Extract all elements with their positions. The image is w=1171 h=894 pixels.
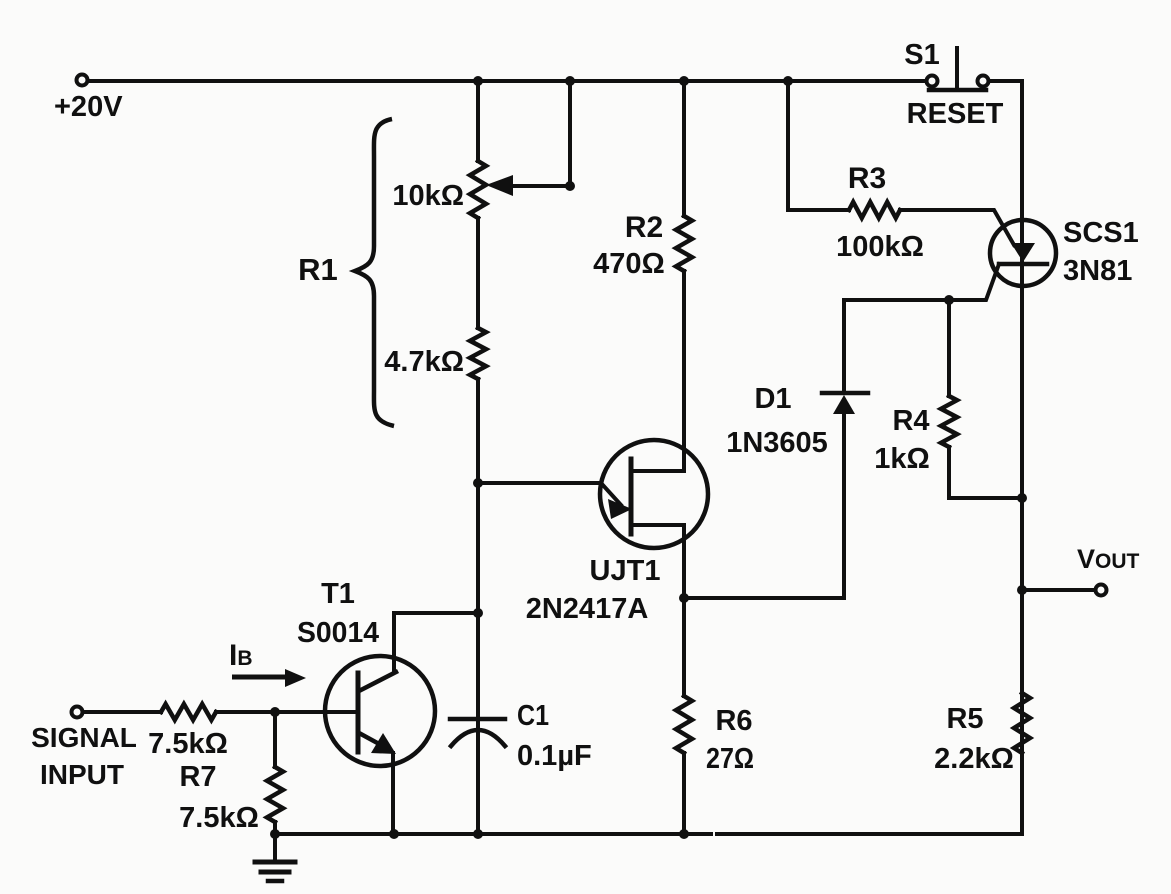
svg-text:S0014: S0014 [297, 617, 379, 649]
svg-text:2N2417A: 2N2417A [526, 593, 649, 625]
svg-text:UJT1: UJT1 [590, 555, 661, 587]
svg-text:100kΩ: 100kΩ [836, 231, 924, 263]
svg-text:R2: R2 [625, 211, 663, 244]
svg-text:7.5kΩ: 7.5kΩ [148, 728, 228, 760]
svg-text:R1: R1 [298, 252, 338, 287]
svg-text:10kΩ: 10kΩ [392, 180, 464, 212]
svg-text:3N81: 3N81 [1063, 255, 1132, 287]
svg-text:1N3605: 1N3605 [726, 427, 828, 459]
svg-text:R5: R5 [946, 703, 983, 735]
svg-text:0.1µF: 0.1µF [517, 740, 592, 772]
svg-text:T1: T1 [321, 578, 355, 610]
svg-text:S1: S1 [904, 39, 939, 71]
svg-text:1kΩ: 1kΩ [874, 443, 930, 475]
svg-text:7.5kΩ: 7.5kΩ [179, 802, 259, 834]
svg-text:RESET: RESET [907, 98, 1004, 130]
svg-text:D1: D1 [754, 383, 791, 415]
svg-text:C1: C1 [517, 700, 549, 732]
svg-text:4.7kΩ: 4.7kΩ [384, 346, 464, 378]
svg-text:470Ω: 470Ω [593, 248, 665, 280]
svg-text:27Ω: 27Ω [706, 743, 754, 775]
svg-text:2.2kΩ: 2.2kΩ [934, 743, 1014, 775]
svg-text:+20V: +20V [54, 91, 123, 123]
svg-text:R7: R7 [179, 761, 216, 793]
svg-text:INPUT: INPUT [40, 759, 124, 790]
svg-text:R4: R4 [892, 405, 929, 437]
svg-text:R3: R3 [848, 162, 886, 195]
svg-text:R6: R6 [715, 705, 752, 737]
svg-text:SIGNAL: SIGNAL [31, 722, 137, 753]
svg-text:SCS1: SCS1 [1063, 217, 1139, 249]
